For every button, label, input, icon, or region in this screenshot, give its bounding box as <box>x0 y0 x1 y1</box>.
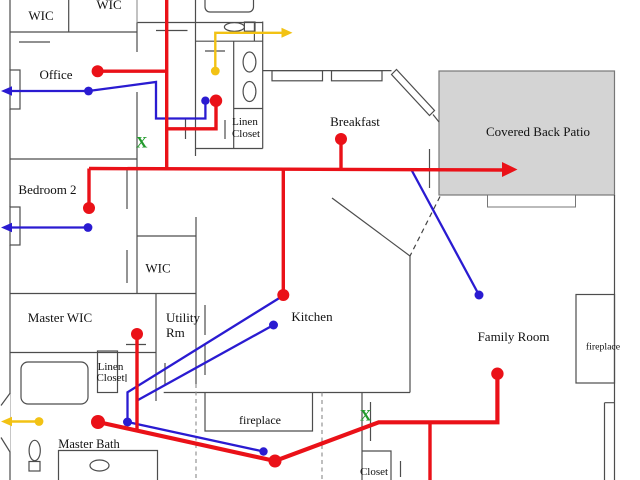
wire blue kitchen B <box>138 325 274 400</box>
blue arrowhead bedroom2 <box>1 223 12 233</box>
tick linen2 <box>125 374 127 382</box>
door leaf lower-left A <box>1 393 10 406</box>
red outlet dot family <box>491 368 503 380</box>
wall left outer <box>9 0 11 480</box>
svg-text:Utility: Utility <box>166 310 200 325</box>
blue outlet dot linen <box>201 97 209 105</box>
wall bedroom2 top <box>10 158 137 160</box>
wall wic bottom <box>10 31 137 33</box>
wall hall top <box>137 22 263 24</box>
tick hall b <box>224 120 226 139</box>
garden tub <box>21 362 88 404</box>
patio door hinge <box>433 115 439 123</box>
door dash masterwic <box>126 344 146 346</box>
jamb bedroom2 window <box>10 207 20 245</box>
red outlet dot bedroom2 <box>83 202 95 214</box>
patio step <box>488 195 576 207</box>
svg-text:Closet: Closet <box>96 372 124 384</box>
closet divider <box>234 108 263 110</box>
wire blue master bath C <box>128 422 264 452</box>
wall house right <box>614 195 616 480</box>
svg-text:fireplace: fireplace <box>586 342 621 353</box>
recess nook <box>272 71 323 81</box>
wall masterwic bottom <box>10 352 156 354</box>
wall bath right <box>262 22 264 149</box>
fireplace 1 box <box>205 393 313 432</box>
wall utility right <box>195 217 197 384</box>
blue outlet dot kitchen <box>269 321 278 330</box>
vanity counter rect <box>244 22 255 31</box>
wire blue office run <box>11 82 205 119</box>
breakfast window <box>332 71 383 81</box>
wire red masterwic drop <box>135 334 138 430</box>
tick hall a <box>185 119 187 139</box>
sink bath oval <box>224 23 244 32</box>
master bath sink <box>90 460 109 471</box>
svg-text:WIC: WIC <box>96 0 121 12</box>
red outlet dot kitchen <box>277 289 289 301</box>
covered back patio slab <box>439 71 615 195</box>
wall wic3 top <box>137 235 196 237</box>
svg-text:Master WIC: Master WIC <box>28 310 92 325</box>
door tick utility a <box>204 305 206 335</box>
wall x362 <box>361 393 363 480</box>
toilet bowl <box>29 440 40 460</box>
wire blue family tap <box>411 169 479 295</box>
tub top bathroom <box>205 0 254 12</box>
wire red main horizontal <box>89 169 504 171</box>
blue outlet dot family <box>475 291 484 300</box>
wall bath left <box>195 0 197 156</box>
wall kitchen right <box>409 256 411 393</box>
wall kitchen diagonal <box>332 198 410 256</box>
linen closet 2 box <box>98 351 118 393</box>
red outlet dot masterwic <box>131 328 143 340</box>
blue outlet dot master bath <box>259 447 267 455</box>
tick family entry <box>370 402 372 441</box>
patio door leaf <box>392 70 435 116</box>
closet bottom <box>196 148 263 150</box>
svg-text:X: X <box>136 135 148 152</box>
blue outlet dot bedroom2 <box>84 223 93 232</box>
svg-text:Rm: Rm <box>166 325 185 340</box>
svg-text:Covered Back Patio: Covered Back Patio <box>486 124 590 139</box>
yellow outlet dot master <box>35 417 44 426</box>
wall breakfast top <box>263 70 392 72</box>
svg-text:Bedroom 2: Bedroom 2 <box>18 182 76 197</box>
jamb office window <box>10 70 20 109</box>
door dash wic1 <box>19 41 50 43</box>
door threshold line <box>10 393 12 452</box>
svg-text:Closet: Closet <box>360 466 388 478</box>
red outlet dot office <box>92 65 104 77</box>
wire red family branch drop <box>428 422 431 480</box>
dashed wall kitchen diagonal <box>410 197 440 257</box>
dashed wall utility <box>195 384 197 480</box>
yellow outlet dot bath <box>211 67 220 76</box>
door leaf lower-left B <box>1 438 10 453</box>
closet oval 1 <box>243 52 256 72</box>
door tick hall lower <box>164 363 166 385</box>
toilet tank <box>29 462 40 472</box>
svg-text:WIC: WIC <box>28 8 53 23</box>
blue outlet dot office <box>84 87 93 96</box>
blue data wires <box>11 82 479 452</box>
red arrowhead patio <box>502 162 518 177</box>
wall x137 office side <box>136 92 138 294</box>
closet oval 2 <box>243 82 256 102</box>
wire red bedroom2 drop <box>87 169 90 209</box>
wall bath bottom <box>196 40 263 42</box>
svg-text:Kitchen: Kitchen <box>291 309 333 324</box>
wire red kitchen drop <box>282 169 285 295</box>
blue arrowhead office <box>1 86 12 96</box>
svg-text:Breakfast: Breakfast <box>330 114 380 129</box>
svg-text:Family Room: Family Room <box>478 329 550 344</box>
wire red trunk vertical <box>165 0 168 169</box>
red video wires <box>89 0 504 480</box>
door tick bedroom2 <box>126 170 128 209</box>
green X marks <box>136 135 372 425</box>
svg-text:Office: Office <box>40 67 73 82</box>
wire yellow bath riser <box>215 33 282 71</box>
closet bottom box <box>362 451 391 480</box>
yellow arrowhead left <box>1 417 12 427</box>
wire yellow master exit <box>11 420 39 422</box>
door tick utility b <box>204 345 206 375</box>
wall family top <box>164 392 410 394</box>
tick closet2 <box>400 461 402 477</box>
door dash bath <box>205 50 225 52</box>
svg-text:X: X <box>360 408 372 425</box>
wall closet column left <box>233 41 235 148</box>
svg-text:Closet: Closet <box>232 128 260 140</box>
red outlet dot masterbath <box>91 415 105 429</box>
blue outlet dot hall <box>123 418 132 427</box>
wire blue bedroom2 <box>11 226 88 228</box>
wire red linen <box>166 101 217 129</box>
yellow phone wires <box>11 33 282 422</box>
door tick wic3 <box>126 250 128 283</box>
wire blue kitchen A <box>128 297 282 422</box>
door dash hall <box>156 30 188 32</box>
wall patio door side <box>429 149 431 188</box>
svg-text:fireplace: fireplace <box>239 413 281 427</box>
red outlet dot breakfast <box>335 133 347 145</box>
wall wic divider <box>68 0 70 32</box>
master bath box <box>59 451 158 480</box>
wall utility left <box>155 294 157 401</box>
vanity tick <box>253 22 255 41</box>
wall jog bottom right <box>605 403 615 480</box>
wire red breakfast stub <box>339 139 342 168</box>
wall x137 upper <box>136 23 138 53</box>
dashed wall family left <box>321 393 323 480</box>
fireplace 2 box <box>576 295 615 384</box>
yellow arrowhead right <box>282 28 293 38</box>
svg-text:WIC: WIC <box>145 261 170 276</box>
svg-text:Linen: Linen <box>232 116 258 128</box>
wire red master run <box>98 374 497 461</box>
wire red office <box>98 69 167 72</box>
red outlet dot linen <box>210 95 222 107</box>
wall masterwic top <box>10 293 196 295</box>
wall x137 upper light <box>136 0 138 23</box>
red outlet dot hall low <box>269 455 282 468</box>
svg-text:Master Bath: Master Bath <box>58 437 120 451</box>
